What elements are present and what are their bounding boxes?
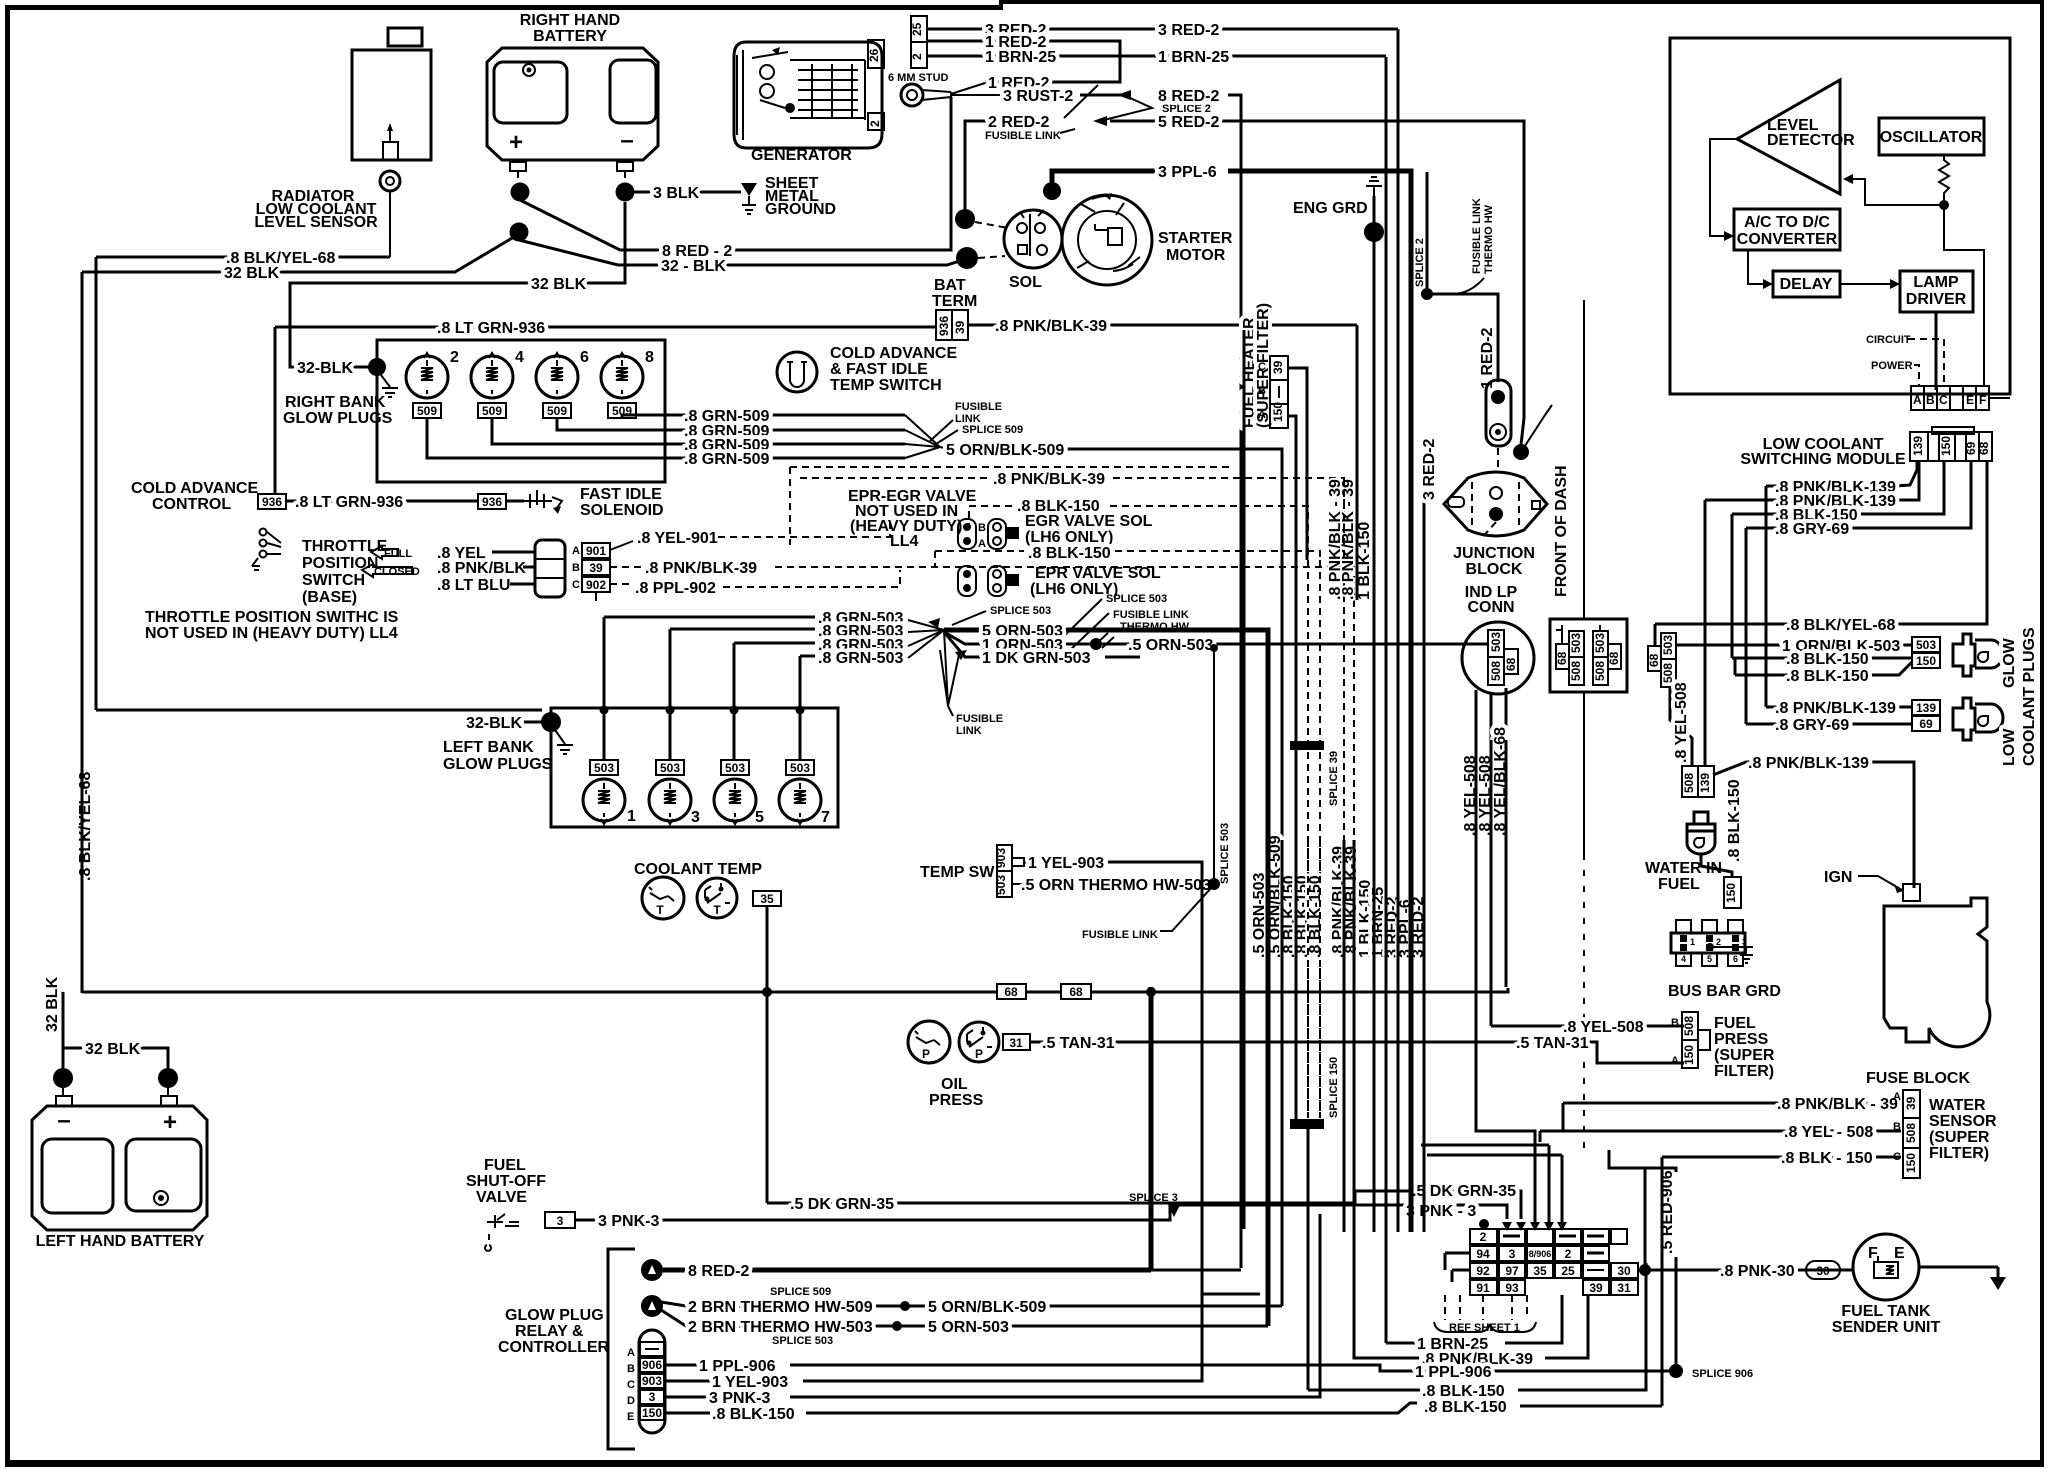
wire 2 RED-2 [965, 121, 990, 210]
svg-text:F: F [1868, 1245, 1878, 1262]
oil press sensors [908, 1021, 950, 1063]
wire 1 DK GRN-503 [944, 632, 982, 657]
svg-text:(SUPER: (SUPER [1714, 1047, 1775, 1064]
svg-text:3 PNK - 3: 3 PNK - 3 [1406, 1203, 1476, 1220]
left hand battery [32, 1106, 207, 1230]
node solenoid top terminal [1043, 182, 1061, 200]
svg-text:.8 BLK-150: .8 BLK-150 [1422, 1383, 1505, 1400]
svg-text:OSCILLATOR: OSCILLATOR [1880, 129, 1983, 146]
generator [734, 42, 882, 148]
svg-text:GROUND: GROUND [765, 201, 836, 218]
connector pins ABCEF [1911, 386, 1989, 410]
wire 1 PPL-906 [664, 1364, 697, 1367]
glow plug 4 [471, 356, 513, 398]
svg-text:C: C [1258, 361, 1266, 373]
svg-text:2: 2 [450, 349, 459, 366]
svg-text:P: P [975, 1047, 983, 1061]
svg-text:(LH6 ONLY): (LH6 ONLY) [1025, 529, 1113, 546]
svg-text:E: E [1966, 393, 1974, 407]
wire cold advance vertical [274, 327, 277, 494]
wire 1 BRN-25 [927, 55, 1386, 58]
a/c to d/c converter box [1734, 209, 1840, 250]
svg-text:2: 2 [1480, 1230, 1487, 1244]
svg-text:SPLICE 503: SPLICE 503 [990, 605, 1051, 617]
wire .8 LT GRN-936 [275, 326, 936, 329]
svg-text:(SUPER: (SUPER [1929, 1129, 1990, 1146]
svg-text:.8 BLK-150: .8 BLK-150 [1424, 1399, 1507, 1416]
svg-text:SENSOR: SENSOR [1929, 1113, 1997, 1130]
wire 2 BRN THERMO HW-509 [661, 1302, 905, 1306]
wire 68 up to BLK/YEL-68 [1654, 624, 1657, 646]
svg-text:1: 1 [1690, 937, 1695, 947]
svg-text:SPLICE 39: SPLICE 39 [1328, 751, 1340, 806]
svg-text:E: E [1894, 1245, 1905, 1262]
svg-text:.8 PNK/BLK: .8 PNK/BLK [437, 560, 526, 577]
svg-text:+: + [509, 129, 523, 156]
svg-text:SPLICE 509: SPLICE 509 [770, 1286, 831, 1298]
svg-text:FILTER): FILTER) [1929, 1145, 1989, 1162]
svg-text:SOLENOID: SOLENOID [580, 502, 664, 519]
svg-text:39: 39 [953, 320, 967, 334]
EGR valve sol connector [958, 519, 976, 549]
wire 1 YEL-903 [1024, 861, 1028, 864]
svg-text:2: 2 [910, 53, 924, 60]
wire overlay bundle verticals [1266, 700, 1271, 1326]
svg-text:TERM: TERM [932, 293, 977, 310]
svg-text:.8 PNK/BLK - 39: .8 PNK/BLK - 39 [1777, 1096, 1898, 1113]
svg-text:CONVERTER: CONVERTER [1737, 231, 1838, 248]
svg-text:6: 6 [580, 349, 589, 366]
wire 1 RED-2 [927, 41, 1120, 82]
svg-text:.8 YEL-508: .8 YEL-508 [1563, 1019, 1644, 1036]
svg-text:& FAST IDLE: & FAST IDLE [830, 361, 928, 378]
svg-text:509: 509 [482, 404, 502, 418]
svg-text:2: 2 [868, 120, 882, 127]
svg-text:903: 903 [642, 1374, 662, 1388]
wire 1 BLK-150 vertical [1373, 240, 1376, 1232]
svg-text:TEMP SW: TEMP SW [920, 864, 995, 881]
ground right bank [381, 375, 398, 397]
splice 509 crossing [905, 415, 948, 458]
svg-text:SPLICE 2: SPLICE 2 [1414, 238, 1426, 287]
svg-text:2 BRN THERMO HW-503: 2 BRN THERMO HW-503 [688, 1319, 873, 1336]
svg-text:25: 25 [1561, 1264, 1575, 1278]
node relay terminal 8 RED-2 [641, 1259, 663, 1281]
svg-text:94: 94 [1476, 1247, 1490, 1261]
svg-text:GLOW PLUG: GLOW PLUG [505, 1307, 604, 1324]
svg-text:.8 PNK/BLK-39: .8 PNK/BLK-39 [993, 471, 1105, 488]
svg-text:508: 508 [1661, 663, 1675, 683]
svg-text:35: 35 [1533, 1264, 1547, 1278]
wire 68 bus [82, 990, 1508, 992]
svg-text:3: 3 [557, 1214, 564, 1228]
svg-text:EPR VALVE SOL: EPR VALVE SOL [1035, 565, 1161, 582]
svg-text:2 BRN THERMO HW-509: 2 BRN THERMO HW-509 [688, 1299, 873, 1316]
ref sheet dashed drops [1445, 1295, 1527, 1320]
svg-text:T: T [713, 903, 721, 917]
svg-text:.5 TAN-31: .5 TAN-31 [1516, 1035, 1589, 1052]
svg-text:NOT USED IN (HEAVY DUTY) LL4: NOT USED IN (HEAVY DUTY) LL4 [145, 625, 398, 642]
svg-text:LEFT BANK: LEFT BANK [443, 739, 534, 756]
wire 8 RED-2 from battery + [520, 97, 951, 250]
svg-text:503: 503 [994, 875, 1008, 895]
svg-text:901: 901 [586, 544, 606, 558]
svg-text:A/C TO D/C: A/C TO D/C [1744, 214, 1830, 231]
wire .8 YEL-901 dashed [610, 541, 633, 550]
node battery + terminal [511, 183, 530, 202]
left bank glow plugs box [551, 708, 838, 827]
wire .8 PNK/BLK-139 a [1766, 461, 1917, 486]
glow plug 1 [583, 779, 625, 821]
svg-text:1 YEL-903: 1 YEL-903 [1028, 855, 1104, 872]
wire converter to delay [1748, 250, 1770, 284]
svg-text:E: E [627, 1411, 634, 1423]
relay connector grid [1470, 1229, 1638, 1295]
svg-text:SENDER UNIT: SENDER UNIT [1832, 1319, 1941, 1336]
svg-text:32 - BLK: 32 - BLK [661, 258, 726, 275]
ground left bank [555, 730, 573, 754]
node right bank ground terminal [368, 358, 386, 376]
water in fuel bulb [1694, 812, 1708, 824]
starter motor body [1062, 195, 1152, 285]
svg-text:503: 503 [1569, 633, 1583, 653]
svg-text:1 BRN-25: 1 BRN-25 [1158, 49, 1229, 66]
svg-text:26: 26 [867, 48, 881, 62]
svg-text:SPLICE 509: SPLICE 509 [962, 424, 1023, 436]
wire 3 RED-2 top [927, 28, 1398, 31]
svg-text:FUSIBLE: FUSIBLE [955, 401, 1002, 413]
svg-text:SPLICE 503: SPLICE 503 [1106, 593, 1167, 605]
svg-text:39: 39 [589, 561, 603, 575]
svg-text:–: – [57, 1107, 70, 1134]
wire .8 YEL-508 fuel press [1491, 1025, 1684, 1028]
svg-text:B: B [1926, 393, 1935, 407]
wire .8 BLK-150 dashed vertical 1 [1307, 560, 1309, 1118]
svg-text:GLOW PLUGS: GLOW PLUGS [283, 410, 393, 427]
svg-text:97: 97 [1505, 1264, 1519, 1278]
svg-text:SPLICE 150: SPLICE 150 [1328, 1057, 1340, 1118]
svg-text:68: 68 [1555, 651, 1569, 665]
wire osc to detector [1846, 179, 1944, 205]
svg-text:1 DK GRN-503: 1 DK GRN-503 [982, 650, 1091, 667]
svg-text:139: 139 [1916, 701, 1936, 715]
svg-text:FUSE BLOCK: FUSE BLOCK [1866, 1070, 1970, 1087]
svg-text:.8 LT BLU: .8 LT BLU [437, 577, 510, 594]
wire .8 BLK-150 top right [1661, 1157, 1664, 1406]
svg-text:906: 906 [642, 1358, 662, 1372]
connector 150 water in fuel [1724, 877, 1741, 908]
svg-text:1 BLK-150: 1 BLK-150 [1356, 522, 1373, 600]
svg-text:150: 150 [1271, 402, 1285, 422]
svg-text:TEMP SWITCH: TEMP SWITCH [830, 377, 942, 394]
glow plug 7 [779, 779, 821, 821]
svg-text:GENERATOR: GENERATOR [751, 147, 852, 164]
svg-text:3: 3 [1509, 1247, 1516, 1261]
svg-text:LEVEL SENSOR: LEVEL SENSOR [254, 214, 378, 231]
full/closed arrows [371, 546, 398, 559]
op-amp level detector [1737, 80, 1840, 194]
svg-text:3 PNK-3: 3 PNK-3 [709, 1390, 770, 1407]
wire F to module edge [1984, 268, 2010, 398]
svg-text:FILTER): FILTER) [1714, 1063, 1774, 1080]
svg-text:139: 139 [1911, 436, 1925, 456]
svg-text:.8 PNK/BLK-39: .8 PNK/BLK-39 [645, 560, 757, 577]
svg-text:3: 3 [691, 809, 700, 826]
wire vertical left x96 [95, 257, 98, 710]
svg-text:A: A [572, 545, 580, 557]
splice 2 arrows [1117, 90, 1131, 100]
svg-text:FRONT OF DASH: FRONT OF DASH [1553, 465, 1570, 597]
connector 508 139 [1682, 766, 1698, 797]
svg-text:503: 503 [1489, 632, 1503, 652]
svg-text:CLOSED: CLOSED [374, 566, 420, 578]
svg-text:30: 30 [1617, 1264, 1631, 1278]
svg-text:.5 TAN-31: .5 TAN-31 [1042, 1035, 1115, 1052]
node fusible link dot [1090, 638, 1102, 650]
svg-text:503: 503 [1916, 638, 1936, 652]
wire .8 PPL-902 dashed [610, 583, 633, 585]
svg-text:.5 DK GRN-35: .5 DK GRN-35 [790, 1196, 894, 1213]
svg-text:A: A [1258, 409, 1266, 421]
node engine block terminal [510, 223, 529, 242]
svg-text:RELAY &: RELAY & [515, 1323, 584, 1340]
svg-text:503: 503 [660, 761, 680, 775]
svg-text:.8 BLK - 150: .8 BLK - 150 [1781, 1150, 1873, 1167]
fuel tank sender unit [1853, 1234, 1919, 1300]
wire .8 GRY-69 module [1746, 461, 1971, 528]
svg-text:FUSIBLE LINK: FUSIBLE LINK [1082, 929, 1158, 941]
svg-text:68: 68 [1004, 985, 1018, 999]
bottom right label wires [1386, 1342, 1415, 1345]
wire .8 BLK-150 fuel heater vertical [1295, 430, 1298, 1124]
svg-text:150: 150 [1682, 1045, 1696, 1065]
svg-text:8 RED-2: 8 RED-2 [688, 1263, 749, 1280]
wire .8 BLK-150 dashed vertical 2 [1319, 560, 1321, 1118]
wire 508 down [1670, 687, 1692, 766]
svg-text:6: 6 [1733, 954, 1738, 964]
node 2 RED-2 terminal [955, 209, 975, 229]
svg-text:69: 69 [1919, 717, 1933, 731]
node junction wire dot [1513, 444, 1529, 460]
glow plug 2 [406, 356, 448, 398]
svg-text:509: 509 [417, 404, 437, 418]
starter motor solenoid [1004, 210, 1062, 268]
svg-text:508: 508 [1489, 661, 1503, 681]
svg-text:3 RUST-2: 3 RUST-2 [1003, 88, 1073, 105]
cold advance and fast idle temp switch [777, 352, 817, 392]
svg-text:3: 3 [649, 1390, 656, 1404]
node bat term [956, 247, 978, 269]
svg-text:.5 ORN-503: .5 ORN-503 [1128, 637, 1213, 654]
svg-text:B: B [572, 562, 580, 574]
wire 3 PNK-3 [575, 1205, 1507, 1220]
svg-text:POWER: POWER [1871, 360, 1913, 372]
border frame left [5, 5, 10, 1466]
low coolant bulb 2 [1953, 698, 2003, 740]
svg-text:A: A [1671, 1055, 1679, 1067]
border frame bottom [5, 1460, 2044, 1467]
svg-text:.8 GRY-69: .8 GRY-69 [1775, 521, 1849, 538]
svg-text:THROTTLE: THROTTLE [302, 538, 388, 555]
svg-text:.8 GRY-69: .8 GRY-69 [1775, 717, 1849, 734]
wire 32 BLK battery left [62, 992, 65, 1068]
svg-text:508: 508 [1904, 1123, 1918, 1143]
svg-text:1 YEL-903: 1 YEL-903 [712, 1374, 788, 1391]
svg-text:5 RED-2: 5 RED-2 [1158, 114, 1219, 131]
svg-text:39: 39 [1271, 360, 1285, 374]
lamp driver box [1900, 271, 1973, 312]
svg-text:THERMO HW: THERMO HW [1483, 204, 1495, 274]
svg-text:150: 150 [1916, 654, 1936, 668]
svg-text:3 BLK: 3 BLK [653, 185, 700, 202]
glow plug 3 [649, 779, 691, 821]
svg-text:C: C [1939, 393, 1948, 407]
connector 509 labels [413, 403, 441, 418]
svg-text:32 BLK: 32 BLK [85, 1041, 141, 1058]
junction block [1444, 472, 1547, 536]
svg-text:RIGHT HAND: RIGHT HAND [520, 12, 620, 29]
fast idle solenoid symbol [506, 500, 524, 503]
svg-text:.5 ORN-503: .5 ORN-503 [1251, 873, 1268, 958]
svg-text:2 RED-2: 2 RED-2 [988, 114, 1049, 131]
svg-text:ENG GRD: ENG GRD [1293, 200, 1368, 217]
water sensor wires [1563, 1102, 1901, 1105]
svg-text:SPLICE 503: SPLICE 503 [1219, 823, 1231, 884]
svg-text:SOL: SOL [1009, 274, 1042, 291]
wire sensor stem [389, 191, 391, 257]
svg-text:4: 4 [515, 349, 524, 366]
svg-text:39: 39 [1589, 1281, 1603, 1295]
svg-text:508: 508 [1593, 661, 1607, 681]
wire .8 GRY-69 bulb2 [1746, 723, 1912, 726]
glow plug relay bracket [608, 1249, 635, 1449]
wire 8 YEL/BLK-68 vertical [1505, 688, 1508, 987]
svg-text:.8 PPL-902: .8 PPL-902 [635, 580, 716, 597]
svg-text:.8 BLK-150: .8 BLK-150 [1786, 668, 1869, 685]
svg-text:SWITCH: SWITCH [302, 572, 365, 589]
svg-text:3: 3 [1742, 937, 1747, 947]
node 35 junction [1146, 987, 1156, 997]
node left bank ground terminal [541, 712, 561, 732]
wires into grid left [1445, 1253, 1470, 1282]
svg-text:SHUT-OFF: SHUT-OFF [466, 1173, 546, 1190]
svg-text:.8 BLK/YEL-68: .8 BLK/YEL-68 [1786, 617, 1895, 634]
svg-text:FUEL: FUEL [1714, 1015, 1756, 1032]
svg-text:LL4: LL4 [890, 533, 919, 550]
throttle switch body [535, 540, 565, 597]
wire .8 PNK/BLK-139 b [1705, 461, 1919, 500]
svg-text:.8 BLK-150: .8 BLK-150 [1307, 875, 1324, 958]
svg-text:FUSIBLE: FUSIBLE [956, 713, 1003, 725]
svg-text:7: 7 [821, 809, 830, 826]
svg-text:3 RED-2: 3 RED-2 [1158, 22, 1219, 39]
wires .8 GRN-503 [604, 617, 815, 656]
svg-text:.8 BLK-150: .8 BLK-150 [1786, 651, 1869, 668]
connector 936/39 [936, 310, 952, 340]
svg-text:GLOW PLUGS: GLOW PLUGS [443, 756, 553, 773]
wire .8 PNK/BLK-139 bulb2 [1766, 706, 1912, 709]
svg-text:4: 4 [1681, 954, 1686, 964]
svg-text:EGR VALVE SOL: EGR VALVE SOL [1025, 513, 1153, 530]
svg-text:.5 ORN THERMO HW-503: .5 ORN THERMO HW-503 [1021, 877, 1211, 894]
svg-text:503: 503 [1593, 633, 1607, 653]
node relay terminal thermo [641, 1295, 663, 1317]
glow plug 5 [714, 779, 756, 821]
svg-text:68: 68 [1504, 657, 1518, 671]
wire .8 PNK/BLK-139 bottom [1713, 762, 1914, 888]
glow coolant bulb 1 [1953, 634, 2003, 676]
svg-text:LOW: LOW [2001, 728, 2018, 766]
svg-text:IGN: IGN [1824, 869, 1852, 886]
svg-text:8/906: 8/906 [1529, 1249, 1552, 1259]
wire 35 down [766, 906, 769, 1203]
connector 503 labels [590, 760, 618, 775]
svg-text:93: 93 [1505, 1281, 1519, 1295]
svg-text:B: B [978, 522, 986, 534]
svg-text:936: 936 [262, 495, 282, 509]
svg-text:REF SHEET 1: REF SHEET 1 [1449, 1322, 1520, 1334]
svg-text:FUSIBLE LINK: FUSIBLE LINK [1113, 609, 1189, 621]
svg-text:68: 68 [1977, 441, 1991, 455]
svg-text:503: 503 [1661, 635, 1675, 655]
wire .8 BLK/YEL-68 [96, 256, 390, 259]
svg-text:THROTTLE POSITION SWITHC IS: THROTTLE POSITION SWITHC IS [145, 609, 399, 626]
svg-text:.5 DK GRN-35: .5 DK GRN-35 [1412, 1183, 1516, 1200]
svg-text:68: 68 [1647, 653, 1661, 667]
wire 1 YEL-903 relay [664, 1380, 710, 1383]
wire .8 BLK/YEL-68 [1655, 461, 1987, 624]
svg-text:1 BRN-25: 1 BRN-25 [985, 49, 1056, 66]
svg-text:.8 PNK/BLK - 39: .8 PNK/BLK - 39 [1340, 479, 1357, 600]
wire .8 BLK-150 bulb1b [1735, 662, 1912, 675]
node grn-503 crossings [600, 706, 609, 715]
svg-text:3 PPL-6: 3 PPL-6 [1158, 164, 1217, 181]
svg-text:(BASE): (BASE) [302, 589, 357, 606]
svg-text:DRIVER: DRIVER [1906, 291, 1967, 308]
svg-text:FUEL: FUEL [1658, 876, 1700, 893]
fuse block outline [1884, 898, 1990, 1047]
svg-text:32-BLK: 32-BLK [297, 360, 353, 377]
svg-text:–: – [620, 127, 633, 154]
svg-text:92: 92 [1476, 1264, 1490, 1278]
svg-text:SPLICE 906: SPLICE 906 [1692, 1368, 1753, 1380]
svg-text:FUSIBLE LINK: FUSIBLE LINK [985, 130, 1061, 142]
svg-text:508: 508 [1682, 773, 1696, 793]
svg-text:WATER: WATER [1929, 1097, 1986, 1114]
wire 5 ORN/BLK-509 [948, 449, 1282, 1306]
svg-text:COOLANT TEMP: COOLANT TEMP [634, 861, 762, 878]
wire .5 DK GRN-35 [767, 1191, 1521, 1219]
svg-text:.8 PNK/BLK-139: .8 PNK/BLK-139 [1775, 700, 1896, 717]
svg-text:31: 31 [1009, 1036, 1023, 1050]
wire 5 RED-2 [1110, 121, 1524, 445]
svg-text:BAT: BAT [934, 277, 966, 294]
svg-text:1: 1 [627, 808, 636, 825]
svg-text:B: B [1671, 1017, 1679, 1029]
relay feed arrows [1502, 1222, 1512, 1231]
svg-text:503: 503 [725, 761, 745, 775]
node osc junction [1939, 200, 1949, 210]
svg-text:150: 150 [642, 1406, 662, 1420]
svg-text:BATTERY: BATTERY [533, 28, 607, 45]
svg-text:1 PPL-906: 1 PPL-906 [699, 1358, 776, 1375]
wire detector feedback [1710, 139, 1737, 236]
svg-text:FAST IDLE: FAST IDLE [580, 486, 662, 503]
svg-text:DELAY: DELAY [1780, 276, 1833, 293]
wire .5 RED-906 [1644, 1168, 1647, 1270]
svg-text:5 ORN-503: 5 ORN-503 [928, 1319, 1009, 1336]
svg-text:508: 508 [1569, 661, 1583, 681]
